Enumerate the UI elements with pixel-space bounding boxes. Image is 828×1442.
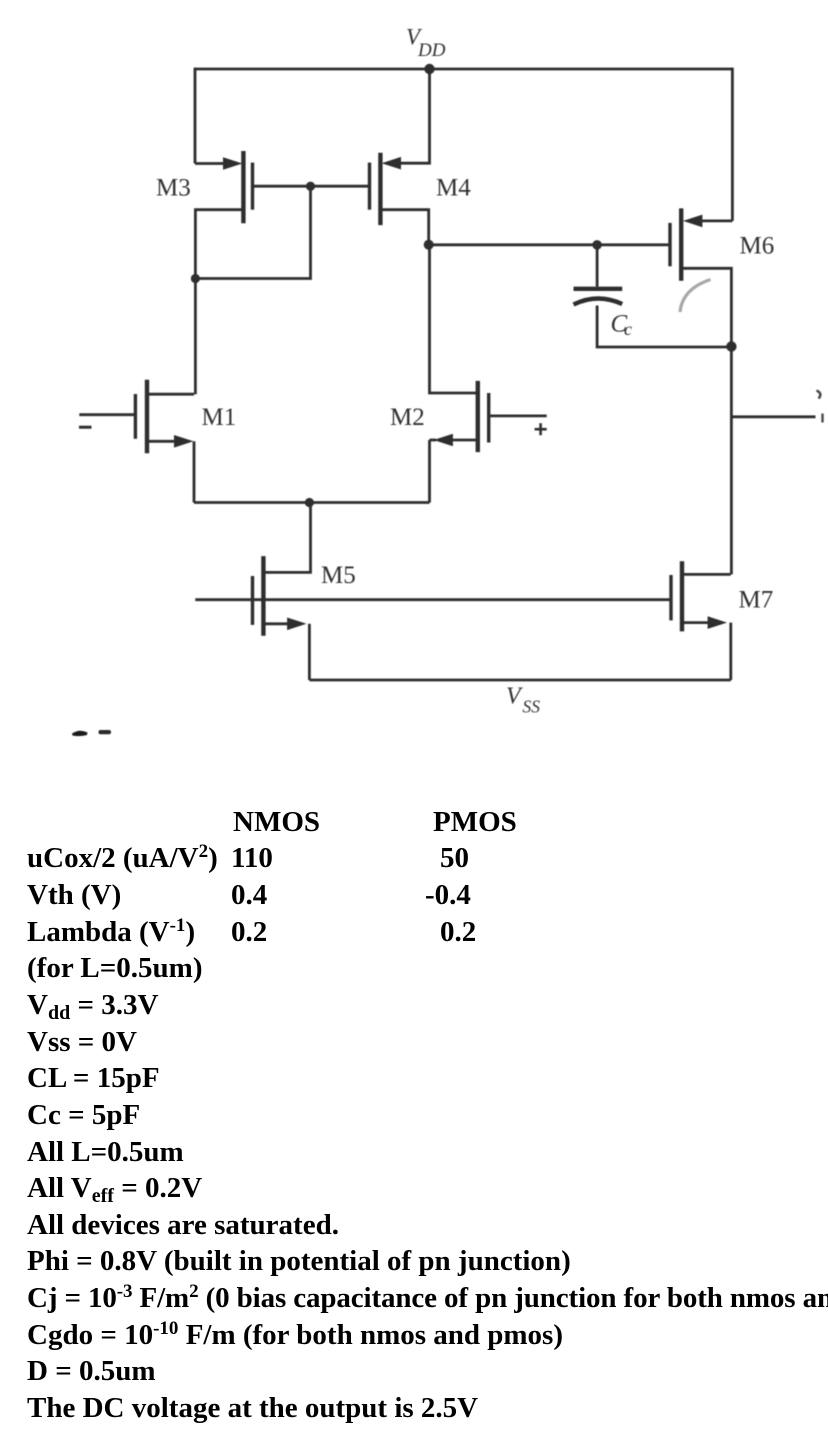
svg-text:M3: M3 — [156, 175, 191, 202]
svg-text:M4: M4 — [436, 175, 471, 202]
svg-text:M6: M6 — [740, 233, 775, 260]
svg-text:M7: M7 — [739, 587, 774, 614]
svg-text:M2: M2 — [390, 404, 425, 431]
svg-text:M1: M1 — [202, 404, 237, 431]
svg-text:c: c — [624, 319, 632, 339]
svg-text:SS: SS — [523, 697, 541, 717]
svg-text:V: V — [506, 684, 523, 710]
svg-text:M5: M5 — [321, 562, 356, 589]
svg-text:DD: DD — [417, 40, 446, 61]
